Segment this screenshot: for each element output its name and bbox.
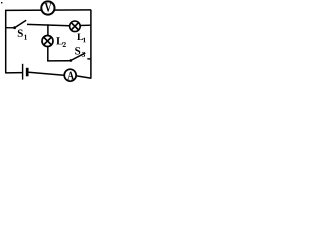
wire L2 bottom to switch S3 [47,60,70,62]
stray dot top-left [1,2,2,3]
wire lamp L2 down [47,46,49,61]
wire junction down to lamp L2 [47,25,49,35]
battery [23,64,28,80]
label L1 [77,33,86,42]
wire right side [90,10,92,79]
switch S3 [69,53,91,62]
switch S1 [13,20,26,29]
wire top side [5,9,91,12]
lamp L1 [70,21,81,32]
node T junction [47,24,49,26]
label S3 [75,47,85,57]
wire battery to ammeter [29,72,64,75]
ammeter A [64,69,76,81]
wire switch S1 to lamp L1 [27,24,70,25]
label S1 [18,30,27,40]
label L2 [56,37,66,47]
voltmeter V [41,1,54,14]
lamp L2 [42,36,53,47]
wire left side [5,10,7,73]
wire left border to switch S1 [6,27,14,29]
wire ammeter to bottom-right corner [77,76,92,78]
wire bottom-left to battery [5,72,22,74]
wire lamp L1 to right border [80,24,91,26]
